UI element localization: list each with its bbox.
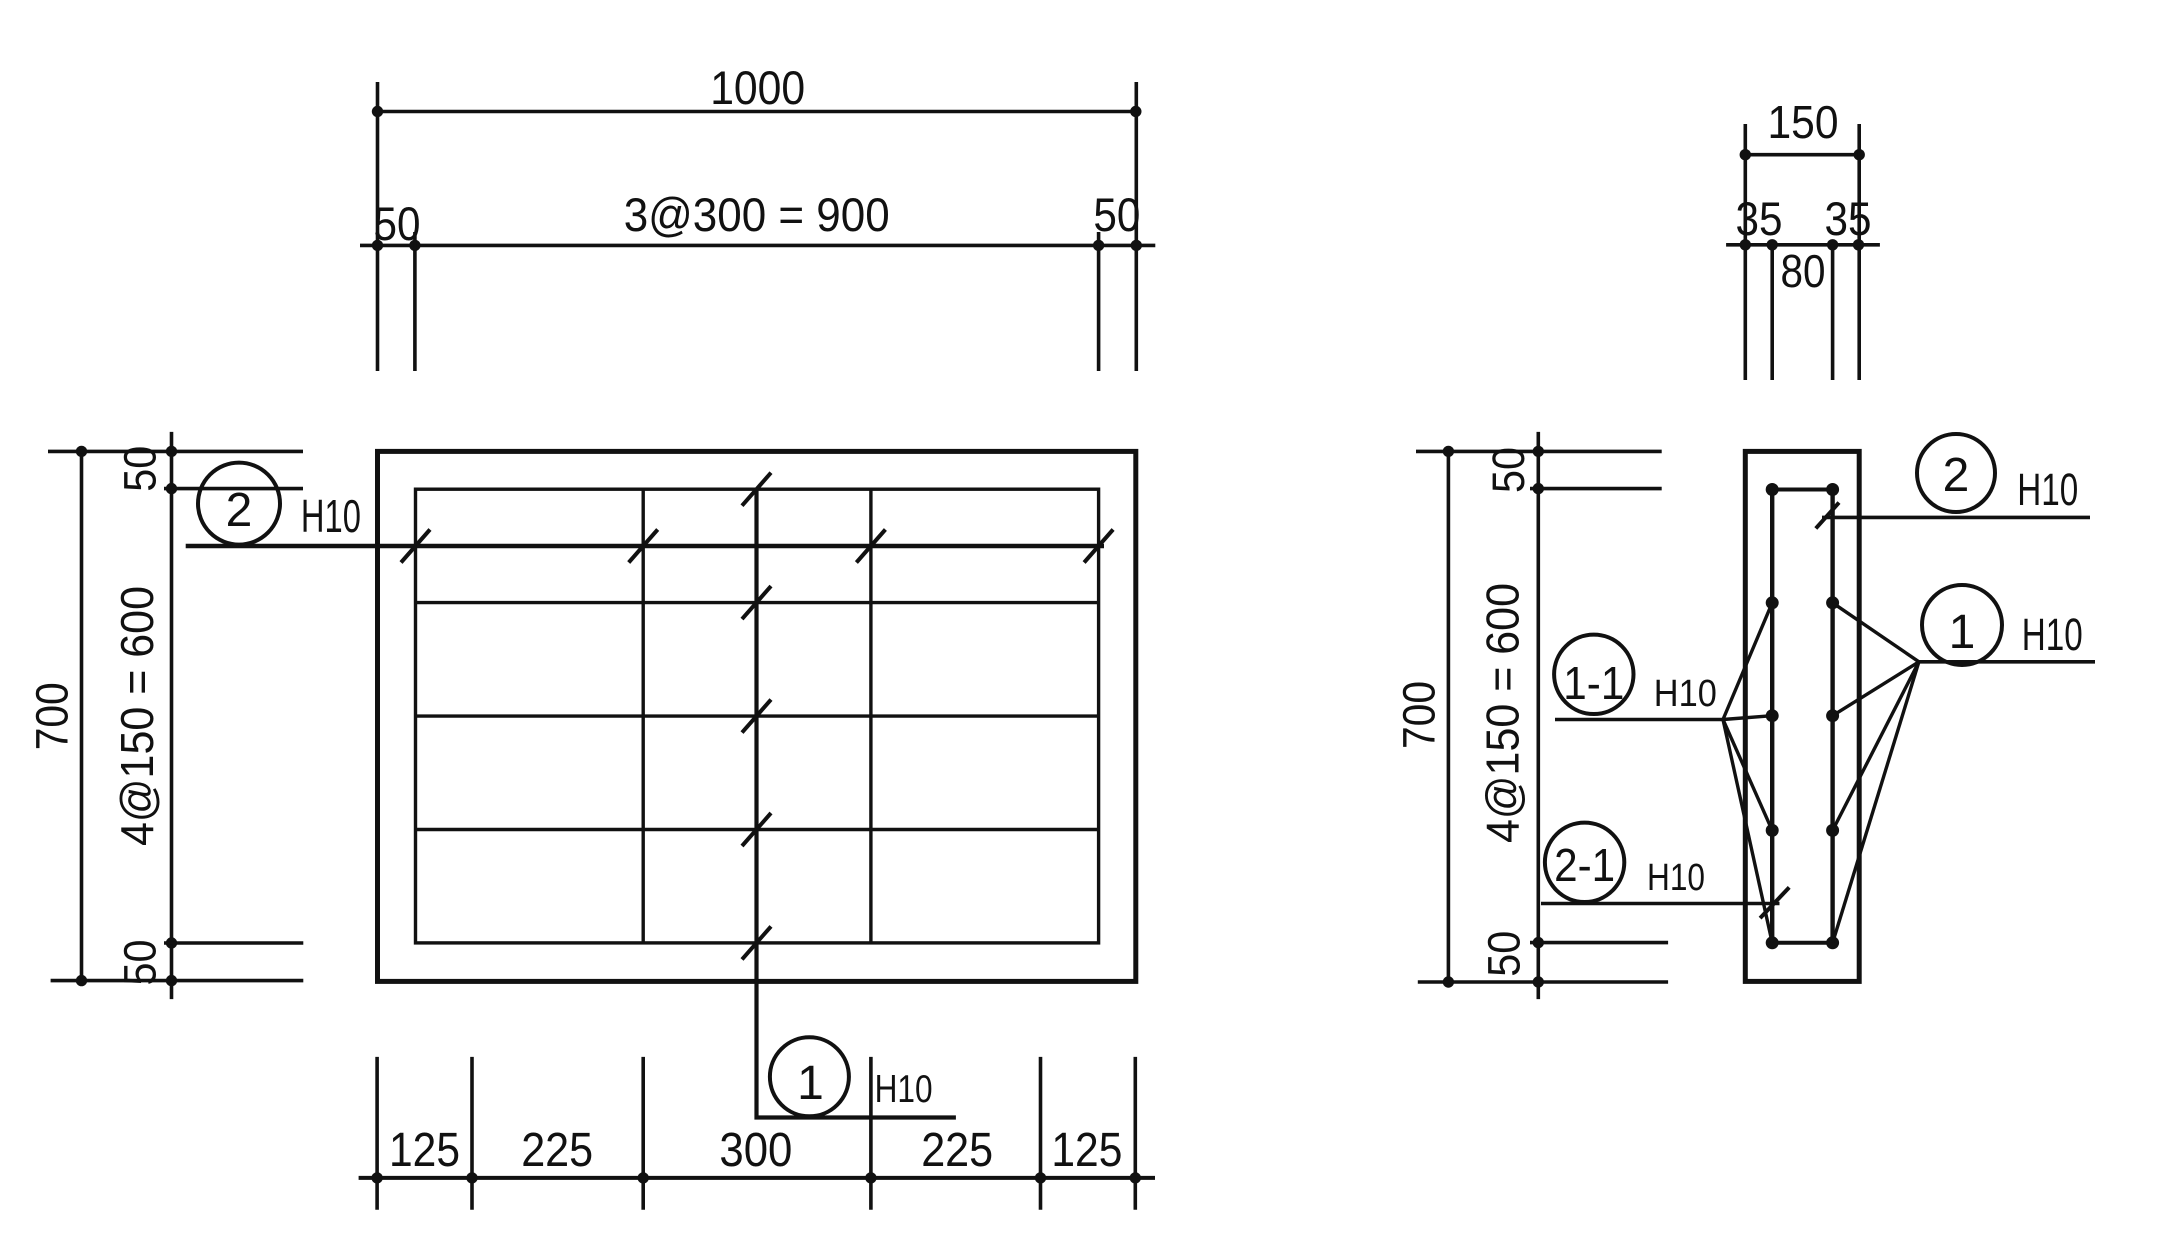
svg-text:50: 50 [115,940,166,986]
plan outer concrete outline [378,451,1136,981]
rebar mark 1 leader tick row 5 [742,926,771,959]
svg-text:2: 2 [226,484,253,537]
callout 2 leader line [1822,516,2090,520]
svg-text:3@300 = 900: 3@300 = 900 [624,188,890,241]
callout circle 1 [770,1037,849,1116]
plan inner bar cage rectangle [416,489,1099,943]
callout 2-1 leader tick [1760,887,1789,918]
callout 1-1 fan line c [1723,720,1772,831]
callout 1-1 leader line [1555,718,1723,722]
dim chain vertical section left [1533,432,1544,999]
callout 1 fan line c [1833,662,1919,831]
rebar mark 2 leader tick at bar C [856,530,885,563]
svg-text:2: 2 [1943,449,1970,502]
tick line section left bottom [1418,980,1668,984]
rebar mark 1 leader tick row 3 [742,700,771,733]
svg-text:35: 35 [1825,192,1872,245]
callout 1 fan line a [1833,603,1919,662]
svg-text:1000: 1000 [710,61,805,114]
svg-text:50: 50 [115,446,166,492]
plan horizontal bar row 2 [416,601,1099,604]
section bar cross dots left [1766,483,1779,949]
extension line section top outer left [1744,124,1748,380]
extension line bottom 6 [1134,1057,1138,1210]
extension line top inner left [413,232,417,371]
extension line section top outer right [1857,124,1861,380]
svg-text:H10: H10 [2017,464,2078,515]
plan horizontal bar row 4 [416,828,1099,831]
callout circle 2-1 [1545,823,1624,902]
svg-text:80: 80 [1781,245,1826,297]
callout 2-1 leader line [1541,902,1780,906]
rebar mark 1 leader polyline [757,489,956,1117]
svg-text:2-1: 2-1 [1554,839,1615,891]
dim line bottom chain [359,1172,1155,1183]
extension line section top inner left [1770,245,1774,380]
svg-text:4@150 = 600: 4@150 = 600 [1477,583,1529,843]
dim line 35-80-35 [1726,239,1880,250]
extension line plan top left [376,82,380,371]
plan horizontal bar row 3 [416,714,1099,717]
section bar cross dots right [1826,483,1839,949]
dim line 150 [1740,149,1865,160]
section outer concrete outline [1745,451,1859,981]
extension line top inner right [1097,232,1101,371]
dim line 700 vertical section [1443,446,1454,988]
extension line bottom 4 [869,1057,873,1210]
svg-text:150: 150 [1768,96,1839,148]
svg-text:35: 35 [1736,192,1783,245]
tick line plan left 50 upper [164,487,303,491]
svg-text:1-1: 1-1 [1563,657,1624,709]
svg-text:125: 125 [1051,1124,1122,1177]
tick line plan left top [48,450,303,454]
rebar mark 1 leader tick row 1 [742,473,771,506]
rebar mark 2 leader tick at bar B [629,530,658,563]
tick line plan left 50 lower [164,941,303,945]
callout 1-1 fan line d [1723,720,1772,943]
callout 2 leader tick [1816,503,1839,529]
extension line bottom 2 [470,1057,474,1210]
svg-text:H10: H10 [875,1068,933,1111]
tick line section left 50 lower [1530,941,1668,945]
section right bar line [1830,490,1834,943]
extension line plan top right [1135,82,1139,371]
svg-text:300: 300 [719,1124,792,1177]
extension line bottom 3 [641,1057,645,1210]
callout circle 2 [198,463,280,545]
dim line 50-900-50 [360,240,1155,251]
extension line bottom 1 [375,1057,379,1210]
dim chain vertical plan left [166,432,177,999]
section bottom tie bar [1772,941,1832,945]
callout 1 fan line d [1833,662,1919,943]
extension line section top inner right [1831,245,1835,380]
svg-text:H10: H10 [2022,609,2083,660]
section top tie bar [1772,488,1832,492]
svg-text:700: 700 [1393,681,1444,749]
rebar mark 2 leader tick at bar D [1084,530,1113,563]
svg-text:700: 700 [27,682,78,750]
callout circle 1 section [1922,585,2002,665]
section left bar line [1770,490,1774,943]
plan vertical bar C [869,489,872,943]
svg-text:225: 225 [921,1124,993,1177]
callout circle 1-1 [1554,635,1633,714]
svg-text:225: 225 [521,1124,593,1177]
svg-text:H10: H10 [301,490,361,542]
callout 1 fan line b [1833,662,1919,716]
svg-text:1: 1 [797,1057,824,1110]
svg-text:1: 1 [1949,606,1976,659]
extension line bottom 5 [1039,1057,1043,1210]
svg-text:H10: H10 [1647,857,1705,899]
tick line section left top [1416,450,1662,454]
rebar mark 2 leader tick at bar A [401,530,430,563]
rebar mark 1 leader tick row 4 [742,813,771,846]
dim line 700 vertical plan [76,446,87,987]
plan vertical bar B [642,489,645,943]
svg-text:4@150 = 600: 4@150 = 600 [111,586,163,846]
svg-text:50: 50 [1483,447,1534,493]
svg-text:50: 50 [1093,188,1140,241]
svg-text:H10: H10 [1654,673,1717,715]
tick line plan left bottom [51,979,304,983]
callout 1-1 fan line b [1723,716,1772,720]
rebar mark 2 leader line [186,544,1104,548]
callout 1 leader line [1919,660,2095,664]
callout circle 2 section [1917,434,1995,512]
tick line section left 50 upper [1530,487,1662,491]
rebar mark 1 leader tick row 2 [742,586,771,619]
svg-text:125: 125 [389,1124,460,1177]
callout 1-1 fan line a [1723,603,1772,720]
svg-text:50: 50 [1478,931,1529,977]
dim line 1000 [372,106,1142,117]
